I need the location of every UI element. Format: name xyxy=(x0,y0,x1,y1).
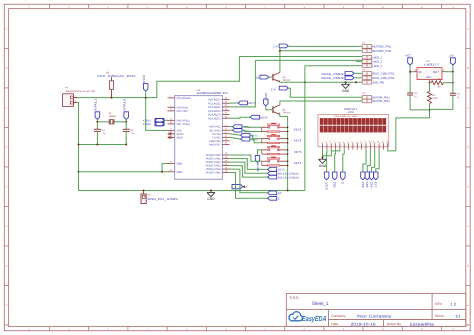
net flag KEY5 (T0) xyxy=(230,134,241,136)
net flag D6 under LCD xyxy=(369,172,373,180)
svg-text:PCINT0 PB0: PCINT0 PB0 xyxy=(206,154,221,157)
svg-text:TIP41C: TIP41C xyxy=(283,112,291,115)
capacitor C3 xyxy=(450,92,456,94)
resistor R1 110k xyxy=(428,91,432,103)
junction dots gnd rail xyxy=(304,81,306,83)
svg-text:D6: D6 xyxy=(369,182,373,188)
svg-text:RELE_CMD2: RELE_CMD2 xyxy=(278,177,300,180)
ground symbol on bottom rail xyxy=(210,190,212,192)
svg-text:ADJ: ADJ xyxy=(426,76,432,79)
wire VCC to MCU VCC pin xyxy=(146,98,168,131)
net flag RELE_CMD1 b xyxy=(230,162,268,173)
wire Q4 collector xyxy=(279,48,281,73)
wire LM35_3 net xyxy=(305,65,362,67)
port flag MOTOR_PIN2 xyxy=(362,99,372,103)
svg-text:RS: RS xyxy=(333,182,337,188)
svg-text:RELE_CMD_PIN1: RELE_CMD_PIN1 xyxy=(372,73,395,76)
capacitor C4 xyxy=(409,72,411,93)
net flag E under LCD xyxy=(341,172,346,180)
net flag E b xyxy=(230,173,268,199)
svg-text:REV:: REV: xyxy=(435,302,442,306)
wire Q5 base xyxy=(266,106,273,110)
svg-text:C: C xyxy=(6,107,8,110)
svg-text:D5: D5 xyxy=(365,182,369,188)
svg-text:GND: GND xyxy=(177,171,183,174)
svg-text:17V: 17V xyxy=(271,87,276,91)
svg-text:KEY5: KEY5 xyxy=(278,169,285,172)
pin 16 PCINT2 PB2 xyxy=(222,161,229,163)
svg-text:Drawn By:: Drawn By: xyxy=(387,322,402,326)
pin 11 T1 PD5 xyxy=(222,136,229,138)
svg-text:G: G xyxy=(6,265,8,268)
net flag D5 under LCD xyxy=(365,172,369,180)
wire LCD contrast pins xyxy=(323,150,340,156)
push button KEY2 xyxy=(262,138,268,140)
net flag D7 left oval xyxy=(232,184,243,188)
net flag KEY2 xyxy=(230,129,233,131)
svg-text:VCC_DISPLAY_PIN2: VCC_DISPLAY_PIN2 xyxy=(97,74,136,78)
push button KEY4 xyxy=(262,160,268,162)
svg-text:Company:: Company: xyxy=(331,314,346,318)
svg-text:GND: GND xyxy=(207,197,215,201)
wire mcu gnd rail xyxy=(79,171,168,173)
svg-text:OUT: OUT xyxy=(433,70,439,74)
svg-text:17V: 17V xyxy=(449,53,454,57)
svg-text:Date:: Date: xyxy=(331,322,339,326)
pin 26 PC3 ADC3 xyxy=(222,110,229,112)
svg-text:17V: 17V xyxy=(273,44,278,48)
svg-text:AIN1 PD7: AIN1 PD7 xyxy=(209,144,221,147)
net flag VCC under LCD xyxy=(324,172,329,180)
wire crystal cap rail xyxy=(79,144,126,146)
port flag GND_PIN xyxy=(362,81,372,85)
push button KEY1 xyxy=(262,126,268,128)
svg-text:110k: 110k xyxy=(432,97,438,100)
pin 19 PCINT5 PB5 xyxy=(222,172,229,174)
push button KEY3 xyxy=(262,149,268,151)
title block xyxy=(286,293,466,326)
pin 1 PC6 RESET xyxy=(168,97,175,99)
svg-text:2019-10-16: 2019-10-16 xyxy=(351,321,377,326)
svg-text:E: E xyxy=(278,198,280,201)
pin 4 INT0 PD2 xyxy=(222,126,229,128)
svg-text:D4: D4 xyxy=(361,182,365,188)
pin 17 PCINT3 PB3 xyxy=(222,165,229,167)
svg-text:LCD: LCD xyxy=(348,110,354,114)
long gnd vertical xyxy=(304,66,306,191)
resistor R2 10k xyxy=(429,82,431,84)
wire LCD pin6 to E flag xyxy=(343,150,345,172)
svg-text:1/1: 1/1 xyxy=(455,313,461,318)
svg-text:PB6 XTAL1: PB6 XTAL1 xyxy=(177,119,191,122)
wire LCD pin16 to regulator gnd xyxy=(388,110,430,151)
pin 22 GND xyxy=(168,171,175,173)
svg-text:KEY2: KEY2 xyxy=(294,139,302,143)
svg-text:C: C xyxy=(467,107,469,110)
net flag RELE_CMD2 b xyxy=(230,166,268,178)
svg-text:XTAL2: XTAL2 xyxy=(143,122,152,126)
pin 14 PCINT0 PB0 xyxy=(222,154,229,156)
regulator gnd rail xyxy=(410,109,429,111)
svg-text:G: G xyxy=(467,265,469,268)
svg-text:VCC: VCC xyxy=(142,74,146,83)
pin 7 VCC xyxy=(168,129,175,131)
svg-text:H: H xyxy=(467,304,469,307)
svg-text:Sheet_1: Sheet_1 xyxy=(312,301,329,307)
svg-text:KEY6: KEY6 xyxy=(256,163,260,172)
svg-text:PC6 RESET: PC6 RESET xyxy=(177,97,192,100)
wire P1 pin2 to bottom gnd rail xyxy=(78,103,79,191)
svg-text:LCD-DISPLAY 16X2: LCD-DISPLAY 16X2 xyxy=(334,115,358,118)
pin 24 PC1 ADC1 xyxy=(222,102,229,104)
svg-text:D8: D8 xyxy=(256,77,260,80)
port flag LM35_1 xyxy=(362,55,372,59)
svg-text:KEY3: KEY3 xyxy=(248,101,256,105)
svg-text:LM35_3: LM35_3 xyxy=(372,65,382,68)
pin 9 PB6 XTAL1 xyxy=(168,119,175,121)
svg-text:AIN0 PD6: AIN0 PD6 xyxy=(209,140,221,143)
net flag KEY6 (T1) xyxy=(230,137,241,139)
port flag MOTOR2_PIN1 xyxy=(362,45,372,49)
pin 6 T0 PD4 xyxy=(222,133,229,135)
pin 5 INT1 PD3 xyxy=(222,129,229,131)
capacitor C2 xyxy=(125,122,127,130)
net flag RS b xyxy=(230,169,268,193)
wire OUT to 17V xyxy=(445,71,453,73)
svg-text:INT0 PD2: INT0 PD2 xyxy=(209,126,221,129)
pin 20 AVCC xyxy=(168,133,175,135)
capacitor C1 xyxy=(96,122,98,130)
net flag D7 under LCD xyxy=(374,172,378,180)
svg-text:Your Company: Your Company xyxy=(356,313,391,318)
svg-text:PB7 XTAL2: PB7 XTAL2 xyxy=(177,123,191,126)
svg-text:GND: GND xyxy=(319,164,327,168)
svg-text:XTAL2: XTAL2 xyxy=(123,98,127,110)
svg-text:ATMEGA328P-PU: ATMEGA328P-PU xyxy=(197,91,229,95)
svg-text:16MHz: 16MHz xyxy=(109,115,117,118)
wire LCD data pin D7 xyxy=(376,150,379,172)
wire LM35_1 net run xyxy=(239,56,362,58)
svg-text:D: D xyxy=(6,146,8,149)
wire LCD data pin D5 xyxy=(367,150,370,172)
pin 21 AREF xyxy=(168,137,175,139)
pin 18 PCINT4 PB4 xyxy=(222,168,229,170)
wire to KEY4 button xyxy=(230,155,262,161)
svg-text:D: D xyxy=(467,146,469,149)
pin 12 AIN0 PD6 xyxy=(222,140,229,142)
svg-text:GND: GND xyxy=(177,163,183,166)
wire KEY6 flag to KEY3 button xyxy=(258,150,262,156)
svg-text:T0 PD4: T0 PD4 xyxy=(212,133,221,136)
wire LCD pin4 to RS flag xyxy=(334,150,337,172)
svg-text:AVCC: AVCC xyxy=(177,133,184,136)
svg-text:XTAL1: XTAL1 xyxy=(94,98,98,110)
svg-text:LM35_2: LM35_2 xyxy=(372,61,382,64)
svg-text:1.0: 1.0 xyxy=(451,301,457,306)
pin 25 PC2 ADC2 xyxy=(222,106,229,108)
svg-text:VCC: VCC xyxy=(405,53,411,57)
wire to MOTOR2_PIN2 xyxy=(280,50,362,52)
svg-text:MOTOR2_PIN1: MOTOR2_PIN1 xyxy=(372,46,391,49)
svg-text:LM317T: LM317T xyxy=(424,63,439,67)
wire KEY1 flag to button xyxy=(242,126,262,129)
svg-text:GND_PIN_JUMP2: GND_PIN_JUMP2 xyxy=(148,197,179,201)
svg-text:KEY1: KEY1 xyxy=(294,127,302,131)
svg-text:MJ2GYV-5.0-2P: MJ2GYV-5.0-2P xyxy=(66,90,97,93)
svg-text:PC2 ADC2: PC2 ADC2 xyxy=(208,106,221,109)
port flag MOTOR_PIN1 xyxy=(362,96,372,100)
EasyEDA logo xyxy=(289,312,302,321)
pin 23 PC0 ADC0 xyxy=(222,98,229,100)
pin 13 AIN1 PD7 xyxy=(222,143,229,145)
wire LCD data pin D4 xyxy=(363,150,366,172)
svg-text:AREF: AREF xyxy=(177,137,184,140)
svg-text:RELE_CMD1: RELE_CMD1 xyxy=(278,173,300,176)
pin 3 PD1 TXD xyxy=(168,110,175,112)
ground symbol near ports xyxy=(345,82,347,84)
svg-text:PC1 ADC1: PC1 ADC1 xyxy=(208,102,221,105)
net flag KEY4 xyxy=(230,116,251,119)
svg-text:MOTOR2_PIN2: MOTOR2_PIN2 xyxy=(372,50,391,53)
net flag RS under LCD xyxy=(332,172,337,180)
svg-text:E: E xyxy=(341,182,345,184)
wire LCD pin1 to GND xyxy=(322,150,324,158)
wire LCD pin2 to VCC flag xyxy=(326,150,328,172)
svg-text:TIP41C: TIP41C xyxy=(283,79,291,82)
svg-text:KEY4: KEY4 xyxy=(260,115,268,119)
wire ADJ node down xyxy=(429,83,431,92)
wire 17V to MOTOR2_PIN1 xyxy=(288,45,362,47)
net flag D4 under LCD xyxy=(361,172,365,180)
net flag KEY1 xyxy=(230,126,233,128)
wire VCC net from P1 pin1 xyxy=(78,57,363,98)
svg-text:KEY4: KEY4 xyxy=(294,161,302,165)
net flag KEY3 xyxy=(230,102,239,104)
svg-text:VCC: VCC xyxy=(324,182,328,191)
net flag KEY6 vertical xyxy=(255,155,259,162)
svg-text:PCINT5 PB5: PCINT5 PB5 xyxy=(206,172,221,175)
junction dots left rail xyxy=(78,144,80,146)
svg-text:RS: RS xyxy=(278,192,282,195)
port flag RELE_CMD_PIN1 xyxy=(362,72,372,76)
wire Q5 emitter to key rail xyxy=(280,114,288,190)
svg-text:TITLE:: TITLE: xyxy=(289,296,300,300)
svg-text:GND: GND xyxy=(342,89,350,93)
wire Q5 collector to MOTOR_PIN2 xyxy=(280,101,281,105)
svg-text:5V: 5V xyxy=(264,93,268,99)
svg-text:H: H xyxy=(6,304,8,307)
pin 8 GND xyxy=(168,162,175,164)
wire LM35_2 net xyxy=(230,60,363,107)
svg-text:RELE_CMD2: RELE_CMD2 xyxy=(321,76,344,80)
svg-text:MOTOR_PIN2: MOTOR_PIN2 xyxy=(372,100,390,103)
svg-text:RELE_CMD_PIN2: RELE_CMD_PIN2 xyxy=(372,77,395,80)
svg-text:IN: IN xyxy=(419,70,422,74)
svg-text:D7: D7 xyxy=(374,182,378,188)
pin 10 PB7 XTAL2 xyxy=(168,123,175,125)
wire LM35_2 port jog xyxy=(357,60,363,61)
svg-text:KEY3: KEY3 xyxy=(294,150,302,154)
svg-text:PC4 ADC4: PC4 ADC4 xyxy=(208,114,221,117)
wire 17V to MOTOR_PIN1 xyxy=(288,88,362,97)
net flag KEY5b xyxy=(230,159,268,170)
port flag MOTOR2_PIN2 xyxy=(362,49,372,53)
svg-text:MOTOR_PIN1: MOTOR_PIN1 xyxy=(372,96,390,99)
wire Q4 emitter / GND rail to ports xyxy=(280,81,362,83)
port flag RELE_CMD_PIN2 xyxy=(362,76,372,80)
pin 28 PC5 ADC5 xyxy=(222,117,229,119)
svg-text:PD0 RXD: PD0 RXD xyxy=(177,106,188,109)
wire KEY6 flag to button xyxy=(250,139,262,143)
pin 27 PC4 ADC4 xyxy=(222,114,229,116)
svg-text:PC0 ADC0: PC0 ADC0 xyxy=(208,99,221,102)
wire LCD data pin D6 xyxy=(372,150,375,172)
pin 2 PD0 RXD xyxy=(168,106,175,108)
port flag LM35_2 xyxy=(362,60,372,64)
svg-text:PC5 ADC5: PC5 ADC5 xyxy=(208,117,221,120)
svg-text:EasyEDA: EasyEDA xyxy=(302,314,327,323)
pin 15 PCINT1 PB1 xyxy=(222,158,229,160)
svg-text:luizpadilha: luizpadilha xyxy=(410,321,435,326)
svg-text:Sheet:: Sheet: xyxy=(435,314,444,318)
svg-text:PD1 TXD: PD1 TXD xyxy=(177,110,188,113)
svg-text:PC3 ADC3: PC3 ADC3 xyxy=(208,110,221,113)
svg-text:LM35_1: LM35_1 xyxy=(372,56,382,59)
wire KEY5 flag to button xyxy=(250,135,262,138)
wire KEY2 flag to button xyxy=(242,130,262,131)
svg-text:GND_PIN: GND_PIN xyxy=(372,81,384,84)
gnd bottom rail xyxy=(79,190,305,192)
connector P5 GND_PIN_JUMP2 xyxy=(143,190,145,192)
port flag LM35_3 xyxy=(362,64,372,68)
